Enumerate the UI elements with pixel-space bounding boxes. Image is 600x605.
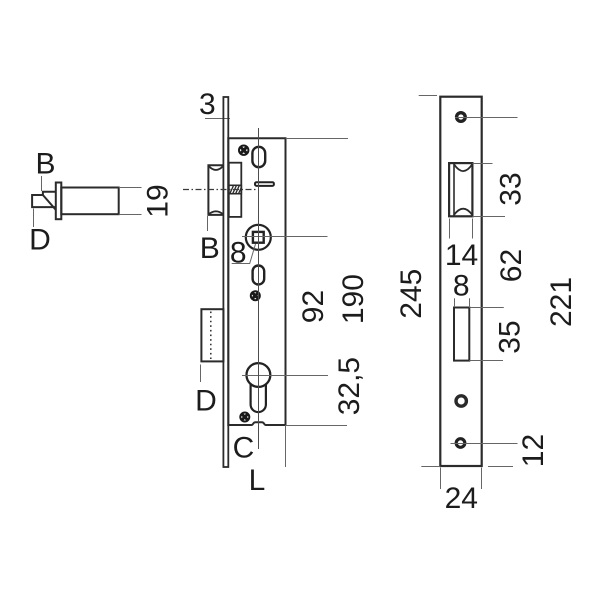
top oblong hole — [252, 147, 265, 167]
extension lines for 19 — [119, 187, 142, 189]
12 bottom dash — [488, 466, 513, 468]
svg-text:12: 12 — [517, 434, 550, 467]
245 bottom dash — [421, 466, 440, 468]
latch head outside faceplate — [208, 165, 223, 215]
deadbolt head — [201, 309, 223, 361]
case right edge extension below — [285, 425, 287, 467]
svg-text:8: 8 — [230, 236, 247, 269]
euro cylinder stem — [251, 384, 266, 412]
spindle horizontal leader — [242, 236, 328, 238]
latch opening bottom arc — [454, 209, 472, 215]
leader from D to deadbolt — [200, 365, 202, 383]
small slot — [255, 182, 274, 186]
24 extension lines — [440, 468, 442, 490]
svg-text:D: D — [29, 224, 51, 257]
svg-text:B: B — [35, 148, 55, 181]
strike plate outline — [440, 97, 481, 466]
lower oblong hole — [253, 266, 265, 285]
bottom screw — [240, 413, 249, 422]
top screw hole — [457, 113, 466, 122]
faceplate — [223, 97, 228, 467]
svg-text:C: C — [233, 432, 255, 465]
latch head bottom arc — [208, 211, 223, 214]
case top extension line — [286, 138, 349, 140]
svg-text:B: B — [200, 232, 220, 265]
svg-text:32,5: 32,5 — [333, 357, 366, 415]
svg-text:221: 221 — [545, 277, 578, 327]
latch centerline (dash-dot) — [183, 189, 258, 191]
svg-text:14: 14 — [445, 239, 478, 272]
leader from B to latch nose — [41, 176, 43, 191]
leader from B to latch head — [207, 216, 209, 231]
latch head top arc — [208, 166, 223, 170]
svg-text:8: 8 — [453, 270, 470, 303]
top screw — [239, 146, 248, 155]
svg-text:D: D — [195, 385, 217, 418]
cylinder horizontal leader — [242, 375, 328, 377]
svg-text:33: 33 — [495, 172, 528, 205]
svg-text:190: 190 — [337, 274, 370, 324]
leader from 3 to faceplate — [205, 118, 230, 120]
lock case outline with bottom notch — [228, 138, 285, 425]
svg-text:245: 245 — [395, 269, 428, 319]
lower screw leader — [451, 443, 518, 445]
leader under 8 to square — [232, 244, 256, 264]
deadbolt opening — [454, 308, 469, 361]
mid hole — [456, 396, 466, 406]
spindle square 8mm — [253, 232, 264, 243]
latch opening inner left line — [453, 163, 455, 216]
latch opening leaders — [472, 163, 492, 165]
svg-text:19: 19 — [142, 184, 175, 217]
deadbolt opening leaders — [469, 307, 504, 309]
svg-text:62: 62 — [495, 249, 528, 282]
hatch block on latch tail — [229, 185, 242, 193]
svg-text:35: 35 — [494, 320, 527, 353]
case bottom extension line — [286, 425, 348, 427]
latch nose bevel diagonal — [43, 195, 56, 210]
euro cylinder circle — [247, 363, 271, 387]
mid screw — [251, 291, 260, 300]
leader from D to latch nose — [33, 209, 35, 228]
latch nose step — [43, 192, 56, 195]
svg-text:3: 3 — [199, 88, 216, 121]
top screw hole leader — [455, 117, 518, 119]
lower screw hole — [456, 439, 465, 448]
latch opening top arc — [454, 164, 472, 171]
latch body (section) — [61, 188, 118, 215]
svg-text:24: 24 — [445, 482, 478, 515]
vertical centerline — [258, 128, 260, 449]
svg-text:L: L — [249, 464, 266, 497]
deadbolt dotted bevel line — [210, 312, 212, 360]
245 top dash — [419, 95, 437, 97]
latch tail rect inside case — [229, 163, 242, 217]
latch opening outer rect — [449, 163, 472, 216]
faceplate bar (section) — [56, 183, 62, 220]
14 extension lines — [449, 219, 451, 239]
8 extension lines — [454, 298, 456, 306]
latch nose rectangle — [32, 195, 56, 207]
svg-text:92: 92 — [297, 290, 330, 323]
spindle hub circle — [246, 225, 271, 250]
